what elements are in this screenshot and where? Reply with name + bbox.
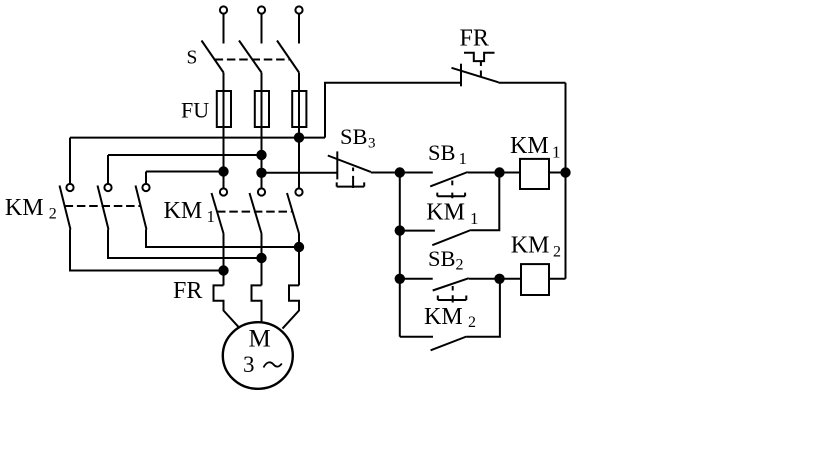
supply terminal L1 [220, 6, 227, 13]
wire bus L2 to KM2 pole2 [108, 154, 262, 156]
wire L3 stub [298, 14, 300, 44]
wire KM1 aux right [471, 173, 499, 231]
contactor KM2 blade pole1 [60, 186, 71, 230]
thermal relay FR hook stem dashed [480, 61, 482, 77]
coil KM1 [520, 159, 549, 189]
wire KM1 aux left [400, 230, 435, 232]
svg-text:S: S [187, 48, 198, 69]
wire bus L1 to KM2 pole3 [146, 171, 224, 173]
wire L1 fuse drop [223, 73, 225, 189]
wire control riser to FR [325, 83, 461, 138]
svg-text:1: 1 [552, 143, 561, 162]
wire KM2 pole2 bottom [108, 230, 262, 259]
node L1 bus junction [218, 166, 228, 176]
wire L1 stub [223, 14, 225, 44]
switch S blade pole2 [239, 41, 262, 73]
coil KM2 [521, 264, 549, 295]
contactor KM2 pole3 terminal [142, 184, 149, 191]
svg-text:FR: FR [460, 25, 489, 51]
wire KM2 pole1 bottom [70, 230, 224, 271]
contactor KM1 blade pole1 [212, 193, 224, 234]
fuse FU2 [255, 91, 269, 127]
wire bus L3 to KM2 pole1 [70, 137, 325, 139]
pushbutton SB3 blade [328, 156, 371, 172]
svg-text:1: 1 [459, 149, 468, 168]
svg-text:SB: SB [428, 140, 456, 165]
fuse FU3 [292, 91, 306, 127]
node V cross junction [256, 253, 266, 263]
node B [494, 167, 504, 177]
node W cross junction [294, 242, 304, 252]
wire KM2 pole1 drop [69, 138, 71, 184]
contact KM2 aux blade [431, 337, 467, 351]
motor M [223, 322, 293, 389]
contactor KM1 blade pole2 [250, 193, 262, 234]
thermal relay FR contact blade [452, 68, 499, 83]
fuse FU1 [217, 91, 231, 127]
svg-text:2: 2 [553, 244, 561, 261]
pushbutton SB3 bar [336, 151, 338, 179]
wire KM2 aux right [467, 279, 500, 337]
node L3 bus junction [294, 132, 304, 142]
switch S blade pole3 [277, 41, 299, 73]
contactor KM1 pole3 terminal [295, 188, 302, 195]
wire L2 stub [261, 14, 263, 44]
wire motor lead U [223, 234, 225, 286]
wire SB1 left [400, 172, 433, 174]
wire SB1 to coil KM1 [468, 172, 520, 174]
svg-text:KM: KM [511, 233, 550, 259]
pushbutton SB3 cap [337, 179, 365, 188]
thermal relay FR heater W [283, 285, 300, 328]
switch S link dashed [215, 59, 290, 61]
pushbutton SB3 actuator dashed [352, 168, 354, 180]
svg-text:1: 1 [207, 207, 216, 226]
wire motor lead V [261, 234, 263, 286]
svg-text:3: 3 [243, 352, 255, 377]
wire KM2 pole3 bottom [146, 230, 299, 248]
node U cross junction [218, 265, 228, 275]
wire L2 fuse drop [261, 73, 263, 189]
pushbutton SB2 blade [433, 278, 469, 290]
svg-text:FR: FR [173, 278, 202, 304]
wire SB3 to node A [371, 172, 400, 174]
wire coil KM1 to bus [549, 172, 566, 174]
wire KM2 pole3 drop [145, 172, 147, 184]
svg-text:2: 2 [49, 206, 57, 223]
contactor KM2 link dashed [65, 205, 141, 207]
contactor KM1 blade pole3 [287, 193, 299, 234]
wire KM2 aux bottom left [400, 336, 433, 338]
thermal relay FR contact bar [460, 64, 462, 87]
wire motor lead W [298, 234, 300, 286]
wire left branch drop [399, 173, 401, 337]
wire right bus [565, 83, 567, 279]
node KM1 aux left [395, 225, 405, 235]
pushbutton SB1 actuator dashed [451, 181, 453, 186]
node bus KM1 [560, 167, 570, 177]
svg-text:KM: KM [164, 198, 203, 224]
wire SB2 left [400, 278, 433, 280]
contactor KM1 link dashed [217, 211, 292, 213]
contactor KM2 blade pole3 [136, 186, 147, 230]
contactor KM1 pole2 terminal [258, 188, 265, 195]
thermal relay FR hook [464, 53, 495, 61]
pushbutton SB1 cap [437, 193, 465, 199]
svg-text:FU: FU [181, 97, 209, 122]
wire SB2 to coil KM2 [469, 278, 521, 280]
pushbutton SB2 actuator dashed [452, 286, 454, 291]
supply terminal L2 [258, 6, 265, 13]
svg-text:KM: KM [426, 199, 465, 225]
contactor KM2 blade pole2 [98, 186, 109, 230]
switch S blade pole1 [202, 41, 224, 73]
supply terminal L3 [295, 6, 302, 13]
thermal relay FR heater V [252, 285, 262, 322]
pushbutton SB1 blade [430, 172, 468, 186]
node SB2 right [494, 274, 504, 284]
contactor KM2 pole1 terminal [66, 184, 73, 191]
wire KM2 pole2 drop [107, 155, 109, 184]
svg-text:SB: SB [340, 124, 368, 149]
wire control feed L2 to SB3 [262, 172, 338, 174]
svg-text:SB: SB [428, 246, 456, 271]
pushbutton SB2 cap [438, 295, 467, 302]
node SB2 left [395, 274, 405, 284]
svg-text:2: 2 [456, 257, 464, 274]
svg-text:M: M [249, 326, 271, 353]
svg-text:1: 1 [470, 209, 479, 228]
contactor KM1 pole1 terminal [220, 188, 227, 195]
svg-text:KM: KM [5, 195, 44, 221]
contact KM1 aux blade [432, 230, 471, 245]
wire FR to right bus [499, 82, 566, 84]
thermal relay FR heater U [214, 285, 241, 328]
svg-text:KM: KM [424, 304, 463, 330]
svg-text:KM: KM [510, 133, 549, 159]
contactor KM2 pole2 terminal [104, 184, 111, 191]
node A [395, 167, 405, 177]
node L2 bus junction [256, 150, 266, 160]
svg-text:3: 3 [368, 136, 376, 152]
svg-text:2: 2 [468, 314, 476, 331]
node L2 control tap [256, 168, 266, 178]
wire coil KM2 to bus [549, 278, 566, 280]
wire L3 fuse drop [298, 73, 300, 189]
